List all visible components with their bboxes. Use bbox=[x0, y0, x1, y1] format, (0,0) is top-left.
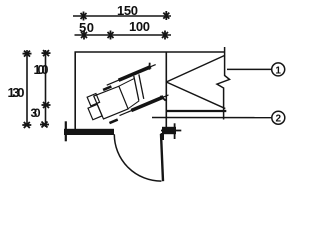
wheelchair seat rail right bbox=[118, 79, 134, 87]
leader line to callout 1 bbox=[227, 68, 271, 70]
svg-text:100: 100 bbox=[34, 63, 49, 77]
wheelchair right push handle bbox=[147, 63, 152, 70]
dimension line 150 (top) bbox=[73, 15, 171, 17]
tick right of 100 bbox=[162, 31, 168, 40]
sill thick line below panel bbox=[166, 110, 226, 112]
door jamb cross horizontal stroke bbox=[161, 130, 181, 132]
wheelchair left push handle bbox=[160, 95, 165, 102]
tick right of 150 line bbox=[163, 11, 169, 20]
door swing arc bbox=[114, 134, 161, 181]
door jamb post (filled) bbox=[162, 127, 176, 134]
svg-text:50: 50 bbox=[79, 20, 94, 35]
wall left of room bbox=[74, 52, 76, 130]
wheelchair footplate left bbox=[88, 104, 102, 119]
wall end cap tick (left of thick wall) bbox=[65, 121, 67, 141]
dimension line 130 (left outer vertical) bbox=[26, 50, 28, 126]
wheelchair seat rail left bbox=[127, 101, 140, 109]
tick top of 130 line bbox=[23, 51, 32, 57]
door leaf elevation diagonal lower bbox=[166, 82, 225, 109]
svg-text:150: 150 bbox=[117, 3, 138, 18]
callout circle 1 bbox=[272, 63, 285, 76]
svg-text:30: 30 bbox=[31, 106, 41, 120]
door leaf top foot bbox=[161, 133, 164, 140]
dimension line 100/30 (left inner vertical) bbox=[45, 50, 47, 127]
tick bottom of 130 line bbox=[22, 122, 31, 128]
dimension line 50/100 (second) bbox=[75, 34, 172, 36]
wall right vertical upper (with break) bbox=[217, 47, 230, 120]
wheelchair right rear wheel tire bbox=[118, 65, 152, 82]
wheelchair left wheel rim line bbox=[120, 95, 169, 116]
wheelchair right wheel rim line bbox=[107, 65, 156, 86]
wall top of room bbox=[75, 51, 225, 53]
wheelchair backrest line 2 bbox=[129, 76, 143, 101]
svg-text:2: 2 bbox=[276, 114, 282, 125]
wheelchair backrest line 1 bbox=[134, 74, 148, 99]
svg-text:100: 100 bbox=[129, 19, 150, 34]
wall interior vertical (right side of room) bbox=[165, 52, 167, 131]
tick middle between 100 and 30 bbox=[42, 102, 51, 108]
tick left of 50 bbox=[81, 31, 87, 40]
svg-text:1: 1 bbox=[275, 65, 281, 76]
callout circle 2 bbox=[272, 111, 285, 124]
wheelchair left rear wheel tire bbox=[131, 95, 165, 112]
tick left of 150 line bbox=[81, 12, 87, 21]
tick top of 100 segment bbox=[42, 50, 51, 56]
tick between 50 and 100 bbox=[108, 31, 114, 40]
leader line to callout 2 bbox=[152, 117, 271, 119]
wall thick bottom-left (hatched wall) bbox=[64, 129, 114, 135]
wheelchair caster left bbox=[109, 120, 117, 123]
door leaf (open) bbox=[161, 134, 163, 181]
wheelchair caster right bbox=[103, 86, 111, 89]
svg-text:130: 130 bbox=[8, 85, 25, 100]
wheelchair footplate right bbox=[87, 93, 99, 105]
tick bottom of 30 segment bbox=[40, 122, 49, 128]
wheelchair seat frame bbox=[94, 86, 129, 120]
wheelchair (plan symbol) bbox=[81, 61, 170, 130]
door leaf elevation diagonal upper bbox=[166, 56, 224, 83]
door jamb cross vertical stroke bbox=[174, 123, 176, 139]
